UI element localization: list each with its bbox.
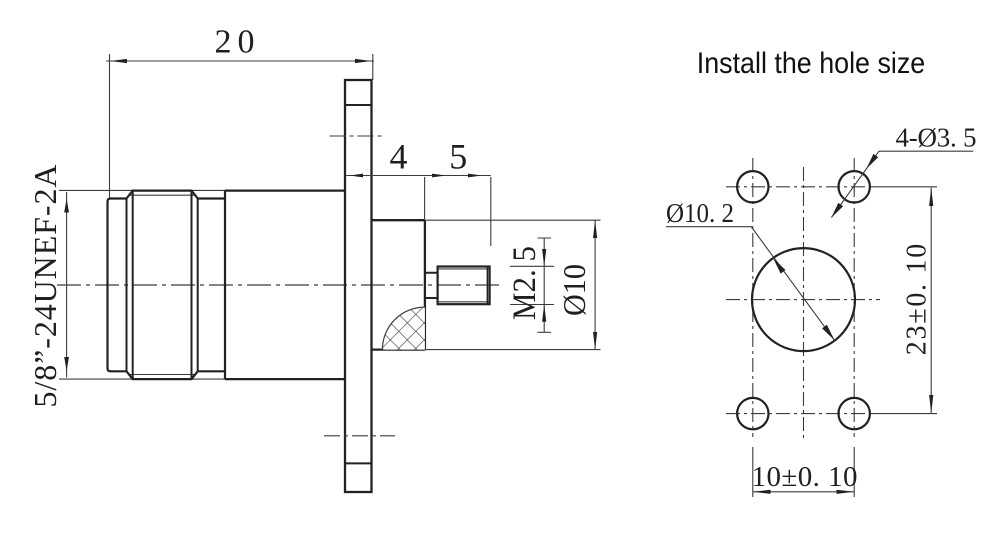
mounting hole top-left <box>737 171 768 202</box>
middle section right face <box>191 191 193 380</box>
dim O10 arrows <box>593 220 597 349</box>
main body outline <box>225 191 345 380</box>
dim 5/8 line <box>66 192 68 378</box>
svg-text:5/8”-24UNEF-2A: 5/8”-24UNEF-2A <box>27 165 63 408</box>
svg-text:Ø10. 2: Ø10. 2 <box>666 198 734 228</box>
leader O10.2 <box>666 227 835 341</box>
pin end chamfer <box>486 267 488 304</box>
rear body section outline <box>372 220 425 349</box>
svg-text:Install the hole size: Install the hole size <box>697 47 926 80</box>
leader O10.2 arrows <box>773 258 834 340</box>
left ring outline <box>110 199 127 372</box>
dim 20 right extension line <box>372 54 374 80</box>
flange <box>345 80 372 492</box>
contact pin outline <box>438 267 490 305</box>
dim M2.5 extension lines <box>510 266 554 304</box>
leader 4-O3.5 <box>831 151 973 217</box>
groove verticals <box>127 191 133 380</box>
center hole O10.2 <box>752 248 855 351</box>
svg-text:23±0. 10: 23±0. 10 <box>902 244 933 356</box>
thread root thin line bottom <box>130 374 197 376</box>
flange bottom hole edge <box>345 462 372 464</box>
svg-text:Ø10: Ø10 <box>556 264 592 316</box>
mounting hole bottom-right <box>839 398 870 429</box>
dim 20 left extension line <box>109 54 111 198</box>
dim 4-5 line <box>345 175 491 177</box>
dim 23 line <box>930 188 932 414</box>
svg-text:M2. 5: M2. 5 <box>507 246 543 320</box>
insulator arc <box>382 307 425 350</box>
svg-text:5: 5 <box>449 137 467 177</box>
dim 20 line <box>106 60 374 62</box>
dim O10 line <box>594 220 596 349</box>
flange top hole centerline <box>330 135 385 137</box>
dim 23 arrows <box>929 188 933 414</box>
hole row centerline top <box>726 186 872 188</box>
hole row centerline bottom <box>726 413 872 415</box>
coupling nut left face <box>108 199 111 372</box>
pin neck <box>425 273 438 298</box>
dim 10 arrows <box>753 490 854 494</box>
dim 20 arrows <box>110 59 372 63</box>
body step face <box>224 191 226 380</box>
svg-text:4: 4 <box>390 137 408 177</box>
dim 10 extension lines <box>753 447 854 497</box>
hole column centerline right <box>853 158 855 437</box>
leader 4-O3.5 arrows <box>831 154 878 218</box>
main centerline left view <box>57 284 499 286</box>
center horizontal centerline <box>726 299 880 301</box>
svg-text:20: 20 <box>215 24 255 61</box>
dim M2.5 arrows <box>542 249 546 322</box>
rear body right face <box>424 220 426 349</box>
pin thread root lines <box>439 269 489 302</box>
center vertical centerline <box>803 167 805 438</box>
svg-text:4-Ø3. 5: 4-Ø3. 5 <box>896 123 977 153</box>
insulator hatch quarter disc <box>382 307 425 350</box>
dim 4 left arrow <box>350 174 364 178</box>
mounting hole bottom-left <box>737 398 768 429</box>
dim 4 extension line <box>424 177 426 219</box>
thread crest thin line bottom (with 5/8 extension) <box>59 378 226 380</box>
dim O10 extension lines <box>425 220 601 349</box>
right ring outline <box>198 199 225 372</box>
flange bottom hole centerline <box>324 435 395 437</box>
right ring left face <box>197 199 199 372</box>
thread crest thin line top (with 5/8 extension) <box>59 189 226 191</box>
middle thread section outline with chamfers <box>127 191 198 380</box>
hole column centerline left <box>752 158 754 437</box>
dim M2.5 line <box>538 238 552 332</box>
mounting hole top-right <box>839 171 870 202</box>
dim 5 extension line <box>490 177 492 246</box>
dim 10 line <box>753 491 854 493</box>
dim 4/5 shared arrows <box>432 174 482 178</box>
thread root thin line top <box>130 194 197 196</box>
dim 5/8 arrows <box>64 199 69 372</box>
flange top hole edge <box>345 104 372 106</box>
svg-text:10±0. 10: 10±0. 10 <box>752 461 858 493</box>
